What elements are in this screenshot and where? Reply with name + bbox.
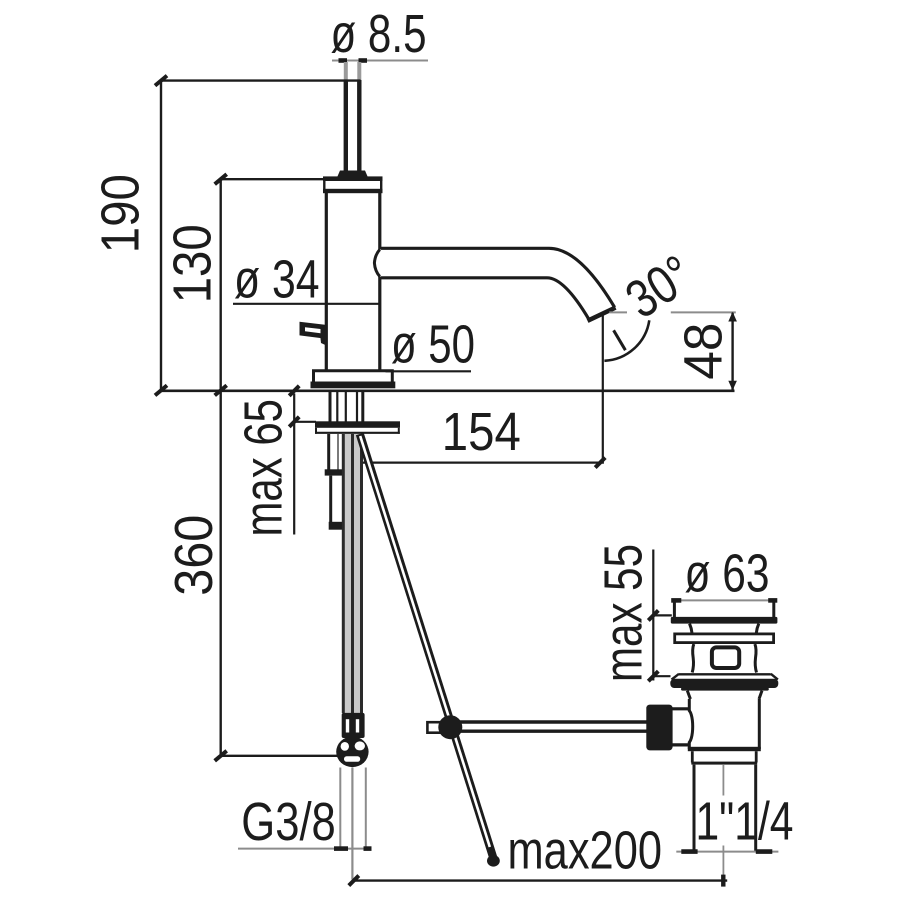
dim max 55 [594,544,672,682]
dim max 65 [235,386,316,537]
dim 130 [163,174,324,395]
spout tip vertical extension [602,314,604,464]
tailpipe center line [722,765,724,796]
spout [381,248,616,320]
square overflow hole [712,647,739,668]
dim line ø 63 [671,599,777,601]
countertop line [161,389,735,392]
leader line ø 34 [233,303,380,305]
dim 1"1/4 [676,793,793,852]
waste tailpipe [694,765,756,852]
label G3/8 [238,793,372,852]
waste flange [670,674,778,691]
threaded shank under base [330,392,363,422]
dim 48 [609,312,737,391]
waste mid body [692,644,694,673]
dim max200 [349,822,727,887]
drain clamp knob [646,705,672,751]
horizontal linkage rod [454,722,648,731]
svg-text:190: 190 [92,174,151,253]
hose nut [342,713,365,738]
svg-text:154: 154 [442,403,521,462]
svg-text:1"1/4: 1"1/4 [696,793,794,852]
pop-up rod (diagonal) [360,434,500,867]
svg-text:ø 34: ø 34 [234,251,320,310]
svg-text:ø 8.5: ø 8.5 [331,5,427,64]
waste ring [691,751,757,764]
rod clamp collar [427,722,441,733]
faucet body [326,193,380,371]
svg-text:ø 50: ø 50 [391,316,475,375]
supply hose short (cut) [325,434,348,530]
pop-up waste top cap [671,601,778,624]
base flange [311,371,396,389]
svg-text:ø 63: ø 63 [685,545,770,604]
svg-text:max 55: max 55 [594,544,653,682]
slip ring disc [675,634,774,643]
rod clamp ball [438,715,462,739]
svg-text:48: 48 [674,323,733,380]
dim 360 [165,391,338,761]
waste body tube [688,699,761,751]
dim 190 [92,76,167,396]
svg-text:360: 360 [165,515,224,596]
svg-text:max 65: max 65 [235,399,294,537]
drain collar arc [672,707,689,710]
svg-text:max200: max200 [508,822,663,881]
dim line ø 8.5 [332,60,428,62]
svg-text:130: 130 [163,224,222,303]
svg-text:G3/8: G3/8 [241,793,335,852]
dim 30 deg [604,245,703,361]
mounting nut and washer [315,421,400,434]
angle leg [614,330,626,350]
neck under flange [687,691,690,699]
spout neck curve on body edge [374,250,379,277]
handle cap [323,171,383,194]
dim 154 [350,403,606,468]
handle rod [346,62,360,177]
G3/8 ball fitting [336,737,368,768]
leader line ø 50 [386,370,472,372]
extension line top (190 ref) [161,79,361,81]
lever handle [300,322,328,346]
angle arc [604,320,649,361]
neck under cap [690,624,692,633]
extension lines below ball [340,768,366,880]
supply hose long [343,434,361,713]
